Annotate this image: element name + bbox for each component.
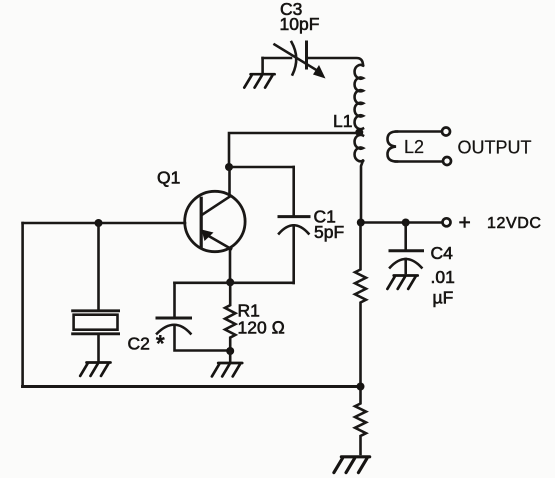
node emitter junction bbox=[226, 278, 234, 286]
node base junction bbox=[95, 219, 103, 227]
capacitor C2 curved plate bbox=[157, 325, 191, 334]
node C4 tap junction bbox=[402, 219, 410, 227]
svg-text:120 Ω: 120 Ω bbox=[238, 318, 286, 338]
svg-text:C2: C2 bbox=[128, 334, 150, 354]
transistor Q1 emitter arrowhead bbox=[202, 230, 214, 242]
capacitor C4 top plate bbox=[390, 249, 423, 252]
wire emitter lead below circle bbox=[229, 249, 232, 282]
wire left vertical bbox=[21, 223, 24, 387]
wire C2 bottom lead bbox=[175, 325, 231, 350]
wire C4 bottom lead bbox=[404, 259, 407, 273]
ground near C3 bbox=[244, 74, 274, 87]
wire L1 bottom to 12VDC node bbox=[361, 161, 363, 223]
crystal XTAL bottom lead bbox=[97, 334, 100, 361]
inductor L1 upper winding bbox=[355, 65, 363, 129]
wire collector lead above circle bbox=[228, 167, 231, 196]
transistor Q1 circle bbox=[185, 191, 245, 251]
svg-text:*: * bbox=[156, 331, 165, 356]
transistor Q1 emitter stroke bbox=[202, 232, 231, 249]
node 12VDC main junction bbox=[357, 219, 365, 227]
wire C3 to L1 top bbox=[308, 58, 363, 66]
capacitor C3 curved plate bbox=[292, 42, 297, 75]
svg-text:OUTPUT: OUTPUT bbox=[458, 138, 532, 158]
wire C1 top lead bbox=[292, 167, 295, 215]
wire bottom rail bbox=[23, 385, 361, 388]
resistor bottom right bbox=[355, 387, 366, 455]
crystal XTAL body bbox=[74, 315, 118, 330]
node L1 tap junction bbox=[355, 128, 363, 136]
inductor L1 lower winding bbox=[355, 135, 363, 161]
ground below crystal bbox=[80, 363, 110, 376]
svg-text:10pF: 10pF bbox=[280, 14, 320, 34]
capacitor C1 top plate bbox=[279, 215, 309, 218]
capacitor C3 straight plate bbox=[305, 42, 308, 68]
svg-text:+: + bbox=[459, 211, 471, 234]
svg-text:.01: .01 bbox=[431, 267, 455, 287]
svg-text:L2: L2 bbox=[404, 137, 424, 157]
wire C2 top lead bbox=[173, 283, 176, 317]
node collector junction bbox=[225, 163, 233, 171]
transistor Q1 collector stroke bbox=[202, 196, 230, 215]
capacitor C3 adjust arrow bbox=[275, 45, 326, 79]
capacitor C4 curved plate bbox=[390, 259, 422, 268]
svg-text:C4: C4 bbox=[431, 243, 454, 263]
resistor R1 bbox=[225, 282, 235, 351]
wire C3 left lead bbox=[263, 57, 291, 60]
resistor upper right bbox=[355, 223, 366, 387]
wire emitter row bbox=[175, 281, 294, 284]
capacitor C2 top plate bbox=[157, 317, 191, 320]
transistor Q1 base bar bbox=[200, 198, 203, 246]
node bottom rail junction bbox=[357, 383, 365, 391]
crystal XTAL bottom plate bbox=[73, 332, 119, 335]
wire L2 top lead bbox=[396, 130, 442, 133]
crystal XTAL top lead bbox=[97, 223, 100, 310]
ground below R1 bbox=[212, 363, 242, 376]
terminal OUTPUT top bbox=[442, 128, 450, 136]
ground below C4 bbox=[387, 276, 417, 289]
wire 12VDC feed bbox=[361, 221, 442, 224]
svg-text:12VDC: 12VDC bbox=[487, 215, 542, 232]
wire C4 top lead bbox=[404, 223, 407, 250]
wire C3 ground drop bbox=[261, 58, 264, 72]
svg-text:Q1: Q1 bbox=[157, 168, 180, 188]
svg-text:µF: µF bbox=[433, 288, 454, 308]
wire collector junction to C1 top bbox=[229, 166, 294, 169]
terminal OUTPUT bottom bbox=[443, 157, 451, 165]
wire R1 to ground bbox=[229, 351, 232, 361]
terminal 12VDC bbox=[443, 218, 451, 226]
ground bottom right bbox=[334, 457, 370, 473]
wire collector riser and tap link bbox=[229, 132, 360, 167]
node R1 bottom junction bbox=[226, 347, 234, 355]
capacitor C1 curved plate bbox=[279, 225, 309, 233]
inductor L2 body bbox=[388, 132, 398, 162]
svg-text:L1: L1 bbox=[333, 111, 352, 131]
crystal XTAL top plate bbox=[73, 309, 119, 312]
svg-text:5pF: 5pF bbox=[314, 222, 344, 242]
wire C1 bottom lead bbox=[292, 225, 295, 283]
wire base lead bbox=[23, 222, 185, 225]
wire L2 bottom lead bbox=[396, 160, 443, 163]
